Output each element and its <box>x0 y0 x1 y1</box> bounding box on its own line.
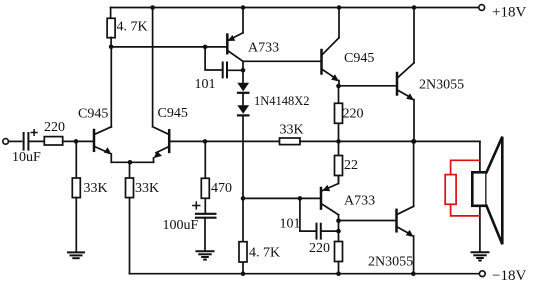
wire top-left corner into R1 <box>110 8 112 19</box>
svg-text:C945: C945 <box>344 51 374 66</box>
svg-text:33K: 33K <box>84 181 108 196</box>
wire speaker feed <box>479 141 481 251</box>
node bottom rail emitter <box>411 271 416 276</box>
wire C6 right leg <box>321 230 339 232</box>
ground left <box>68 252 84 258</box>
node 470 tap <box>203 139 208 144</box>
wire 4.7K drop <box>242 198 244 241</box>
svg-text:2N3055: 2N3055 <box>368 255 413 270</box>
wire node to R7 <box>338 86 340 103</box>
wire input to C1 <box>8 140 21 142</box>
node diode top / C3 <box>241 68 246 73</box>
diode D2 1N4148 <box>237 105 249 114</box>
svg-text:1N4148X2: 1N4148X2 <box>254 94 310 108</box>
wire C6 left leg <box>300 198 316 231</box>
resistor R7 220 <box>335 103 343 123</box>
wire top rail +18V <box>111 7 479 9</box>
wire R3 to ground <box>75 198 77 252</box>
node U6 collector node <box>336 218 341 223</box>
wire R2 to Q1 base <box>63 140 93 142</box>
wire U3 collector to U4 base <box>243 60 320 62</box>
wire R9 to bottom rail <box>338 262 340 274</box>
wire R10 to bottom rail <box>242 262 244 273</box>
svg-text:33K: 33K <box>280 123 304 138</box>
capacitor C6 101 lower <box>316 224 318 239</box>
svg-text:101: 101 <box>280 217 301 232</box>
resistor R11 speaker damping (red) <box>445 160 480 216</box>
ground middle <box>197 251 214 259</box>
node driver emitter node <box>336 84 341 89</box>
node bottom rail 220 <box>336 271 341 276</box>
wire Q2 base line <box>171 140 280 142</box>
node lower A733 base node <box>241 196 246 201</box>
wire R7 to output node <box>338 123 340 141</box>
svg-text:220: 220 <box>44 120 65 135</box>
resistor R6 33K feedback horizontal <box>280 138 301 145</box>
wire R1 bottom to node <box>110 38 112 47</box>
capacitor C2 100uF <box>196 213 215 215</box>
svg-text:4. 7K: 4. 7K <box>117 20 148 35</box>
wire node to R9 <box>338 231 340 241</box>
resistor R2 220 input <box>44 137 62 145</box>
wire down to R4 <box>129 162 131 178</box>
wire R4 to bottom rail <box>129 198 131 274</box>
svg-text:101: 101 <box>195 77 216 92</box>
wire base of U3 A733 <box>111 46 226 48</box>
ground speaker <box>472 252 489 260</box>
svg-text:10uF: 10uF <box>12 150 41 165</box>
resistor R8 22 <box>335 156 343 176</box>
node top rail junction at x=414 <box>412 5 417 10</box>
svg-text:470: 470 <box>211 181 232 196</box>
wire output line <box>339 140 480 142</box>
svg-text:33K: 33K <box>135 181 159 196</box>
wire D1 to D2 <box>242 93 244 105</box>
resistor R1 4.7K top <box>107 18 115 37</box>
node top rail junction at x=339 <box>337 5 342 10</box>
resistor R9 220 lower <box>335 242 343 262</box>
wire R5 to C2 <box>204 198 206 213</box>
diode D1 1N4148 <box>242 70 244 83</box>
node bottom rail 4.7K <box>241 271 246 276</box>
wire output node to R8 <box>338 141 340 155</box>
wire bottom rail -18V <box>130 273 480 275</box>
svg-text:A733: A733 <box>344 194 375 209</box>
transistor U4 C945 driver <box>320 50 323 74</box>
node C6 right tap <box>336 229 341 234</box>
transistor Q5 2N3055 top <box>396 73 399 95</box>
svg-text:220: 220 <box>343 107 364 122</box>
svg-text:−18V: −18V <box>492 268 526 284</box>
capacitor C1 10uF <box>23 133 25 150</box>
svg-text:A733: A733 <box>248 41 279 56</box>
node output mid <box>336 139 341 144</box>
terminal -18V <box>479 271 485 277</box>
svg-text:4. 7K: 4. 7K <box>249 246 280 261</box>
resistor R10 4.7K bottom <box>239 242 247 262</box>
svg-text:220: 220 <box>309 241 330 256</box>
resistor R3 33K left <box>72 178 80 198</box>
wire C3 right leg <box>227 69 243 71</box>
polarity plus of C1 <box>31 130 37 136</box>
wire to Q5 base <box>339 85 397 87</box>
wire lower base line <box>243 197 320 199</box>
capacitor C3 101 <box>222 63 224 78</box>
transistor Q2 C945 right (mirrored) <box>168 130 171 152</box>
node output <box>411 139 416 144</box>
resistor R4 33K middle <box>126 178 134 198</box>
wire Q1 collector riser <box>110 47 112 127</box>
node input bias node <box>74 139 79 144</box>
svg-text:2N3055: 2N3055 <box>419 78 464 93</box>
wire C1 to R2 <box>28 140 44 142</box>
svg-text:C945: C945 <box>78 107 108 122</box>
svg-text:100uF: 100uF <box>163 218 199 233</box>
node emitter common <box>128 160 133 165</box>
wire 470 drop <box>204 141 206 178</box>
terminal +18V <box>479 5 485 11</box>
svg-text:+18V: +18V <box>492 5 526 21</box>
wire C2 to ground <box>204 218 206 251</box>
speaker LS1 <box>472 172 486 206</box>
wire between nodes <box>338 221 340 231</box>
wire D2 down to lower base node <box>242 116 244 199</box>
node top rail junction at x=152.6 <box>150 5 155 10</box>
wire to Q7 base <box>339 220 396 222</box>
transistor Q1 C945 left <box>93 130 96 151</box>
transistor U6 A733 bottom <box>320 188 323 209</box>
resistor R5 470 <box>201 178 209 198</box>
svg-text:22: 22 <box>344 158 358 173</box>
wire emitter bus <box>111 161 153 163</box>
svg-text:C945: C945 <box>158 106 188 121</box>
wire R6 to output node <box>300 140 339 142</box>
node top rail junction at x=243 <box>241 5 246 10</box>
wire C3 left leg <box>205 47 222 70</box>
wire R8 to U6 emitter <box>338 176 340 182</box>
node lower C6 tap <box>298 196 303 201</box>
wire Q2 collector riser <box>152 8 154 127</box>
transistor Q7 2N3055 bottom <box>395 210 398 232</box>
wire collector down to diode node <box>242 61 244 70</box>
polarity plus of C2 <box>193 202 200 209</box>
node C3 base tap <box>203 45 208 50</box>
terminal input <box>3 139 9 145</box>
wire bias node down to R3 <box>75 141 77 178</box>
node A733 base node <box>109 45 114 50</box>
transistor U3 A733 top <box>226 35 229 54</box>
